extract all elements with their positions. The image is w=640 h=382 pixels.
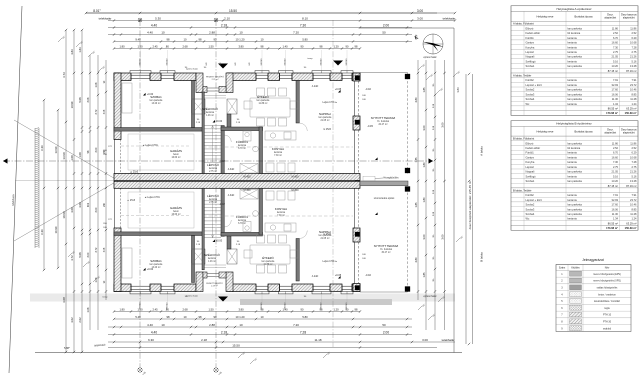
svg-text:lam.parketta: lam.parketta bbox=[568, 212, 583, 216]
svg-text:tégla: tégla bbox=[604, 307, 610, 310]
svg-text:GARÁZS: GARÁZS bbox=[170, 206, 182, 210]
svg-text:4.40: 4.40 bbox=[151, 331, 157, 335]
svg-text:15.50: 15.50 bbox=[232, 344, 240, 348]
wardrobe szoba1 B bbox=[122, 248, 132, 278]
svg-text:5.88°: 5.88° bbox=[64, 346, 70, 350]
svg-text:10: 10 bbox=[261, 38, 264, 42]
svg-text:kerámia: kerámia bbox=[274, 151, 283, 154]
svg-text:építési határ: építési határ bbox=[186, 294, 198, 297]
svg-text:7.28: 7.28 bbox=[631, 45, 637, 49]
svg-text:+0.05: +0.05 bbox=[335, 274, 342, 277]
interior wall bath bottom B bbox=[221, 232, 263, 236]
svg-text:3.08: 3.08 bbox=[104, 109, 106, 114]
survey marker bottom 2 bbox=[214, 368, 223, 376]
svg-text:6.29: 6.29 bbox=[631, 151, 637, 155]
room label F&#220;RD&#336;1 bbox=[236, 214, 248, 225]
section line x=216 bbox=[215, 20, 217, 368]
svg-text:Szoba2: Szoba2 bbox=[526, 88, 535, 92]
section arrow right bbox=[429, 158, 434, 163]
property boundary left (telekhatar) bbox=[9, 6, 22, 373]
svg-text:kerámia: kerámia bbox=[568, 102, 578, 106]
svg-text:3.00: 3.00 bbox=[417, 17, 423, 21]
svg-text:+0.00: +0.00 bbox=[147, 268, 154, 271]
interior wall bath right A bbox=[259, 127, 263, 174]
interior wall etkezo/nappali B bbox=[296, 239, 299, 282]
room label NYITOTT TERASZ bbox=[374, 244, 399, 254]
svg-text:lam.parketta: lam.parketta bbox=[568, 26, 583, 30]
garage slab outline A bbox=[128, 134, 194, 170]
svg-text:2.68: 2.68 bbox=[182, 45, 188, 49]
svg-text:6.36: 6.36 bbox=[40, 145, 44, 151]
property boundary top bbox=[86, 12, 437, 14]
svg-text:NYITOTT TERASZ: NYITOTT TERASZ bbox=[374, 244, 399, 248]
svg-text:2.52: 2.52 bbox=[613, 31, 619, 35]
svg-text:telekhatár: telekhatár bbox=[442, 338, 455, 342]
dimension line y=20.5 bbox=[99, 17, 457, 22]
svg-text:kerámia: kerámia bbox=[568, 41, 578, 45]
door arc etkezo/nappali B bbox=[299, 231, 307, 239]
party wall band 2 bbox=[114, 181, 360, 188]
dimension line y=41.5 bbox=[113, 38, 412, 43]
svg-text:2.18: 2.18 bbox=[221, 24, 227, 28]
svg-text:A 3úD: A 3úD bbox=[228, 194, 235, 197]
svg-text:1.08: 1.08 bbox=[87, 307, 90, 312]
svg-text:A lakás: A lakás bbox=[480, 146, 484, 156]
entry recess side walls A bbox=[196, 73, 203, 93]
sight line upper (to party wall end) bbox=[14, 120, 118, 181]
svg-text:Fürdő2: Fürdő2 bbox=[526, 193, 535, 197]
dimension line x=66 bbox=[62, 29, 67, 353]
svg-text:7.30: 7.30 bbox=[300, 24, 306, 28]
section arrow left bbox=[3, 158, 8, 163]
svg-text:7.91: 7.91 bbox=[613, 193, 619, 197]
svg-text:10.46: 10.46 bbox=[630, 203, 637, 207]
interior wall szoba1 right A bbox=[192, 81, 195, 128]
svg-text:17.60: 17.60 bbox=[612, 203, 619, 207]
svg-text:telekhatár: telekhatár bbox=[11, 194, 16, 206]
svg-text:2.52: 2.52 bbox=[631, 146, 637, 150]
svg-text:87.15 m²: 87.15 m² bbox=[608, 69, 618, 73]
svg-text:1.80: 1.80 bbox=[119, 45, 125, 49]
window labels top bbox=[140, 57, 349, 71]
svg-text:M.450: M.450 bbox=[244, 176, 252, 179]
room label F&#220;RD&#336;1 bbox=[236, 139, 248, 150]
svg-text:90/240: 90/240 bbox=[321, 58, 323, 65]
svg-text:6.70: 6.70 bbox=[613, 36, 619, 40]
svg-text:1.85: 1.85 bbox=[422, 87, 426, 93]
dimension line x=90 bbox=[87, 55, 91, 330]
svg-text:13.90: 13.90 bbox=[54, 146, 58, 153]
dimension line y=311.5 bbox=[113, 308, 361, 313]
svg-text:90/240: 90/240 bbox=[261, 58, 263, 65]
svg-text:Nappali: Nappali bbox=[526, 55, 535, 59]
svg-text:13.28: 13.28 bbox=[630, 64, 637, 68]
svg-text:6.70 m²: 6.70 m² bbox=[238, 222, 246, 225]
svg-text:telekhatár: telekhatár bbox=[94, 343, 106, 348]
dimension line y=48.5 bbox=[113, 45, 361, 50]
svg-text:fél kerámia: fél kerámia bbox=[568, 146, 581, 150]
svg-text:beton: beton bbox=[173, 153, 179, 156]
exterior wall right piers bbox=[353, 73, 360, 81]
svg-text:terep: terep bbox=[103, 296, 109, 299]
svg-text:.80: .80 bbox=[165, 308, 169, 312]
svg-text:10.90: 10.90 bbox=[54, 226, 58, 233]
svg-text:30.47 m²: 30.47 m² bbox=[381, 251, 390, 254]
north compass bbox=[423, 34, 444, 54]
door arc bath B bbox=[224, 220, 231, 227]
svg-text:1.50: 1.50 bbox=[208, 45, 214, 49]
svg-text:98: 98 bbox=[199, 38, 202, 42]
svg-text:fél kerámia: fél kerámia bbox=[568, 31, 581, 35]
svg-text:terep: terep bbox=[308, 57, 314, 60]
svg-text:2.75: 2.75 bbox=[613, 165, 619, 169]
svg-text:Konyha: Konyha bbox=[526, 160, 535, 164]
svg-text:3.00: 3.00 bbox=[417, 9, 423, 13]
dining table + chairs A bbox=[244, 88, 298, 126]
svg-text:3.08: 3.08 bbox=[62, 297, 66, 303]
room label GAR&#193;ZS bbox=[170, 206, 182, 216]
svg-text:7.30: 7.30 bbox=[613, 45, 619, 49]
svg-text:3.80: 3.80 bbox=[238, 45, 244, 49]
svg-text:11.86: 11.86 bbox=[612, 26, 619, 30]
svg-text:kerámia: kerámia bbox=[568, 155, 578, 159]
svg-text:15.50: 15.50 bbox=[229, 9, 237, 13]
svg-text:alapterület: alapterület bbox=[623, 132, 635, 135]
svg-text:16.60: 16.60 bbox=[612, 155, 619, 159]
svg-text:1.50: 1.50 bbox=[137, 45, 143, 49]
svg-text:lam.parketta: lam.parketta bbox=[568, 170, 583, 174]
svg-text:kerámia: kerámia bbox=[206, 111, 215, 114]
svg-text:ÉTKEZŐ: ÉTKEZŐ bbox=[257, 94, 269, 99]
dimension line x=444.5 bbox=[441, 60, 446, 330]
svg-text:90/240: 90/240 bbox=[346, 58, 348, 65]
room label &#201;TKEZ&#336; bbox=[257, 94, 270, 105]
svg-text:Előszó: Előszó bbox=[526, 141, 534, 145]
svg-text:2.88: 2.88 bbox=[209, 31, 215, 35]
svg-text:10: 10 bbox=[239, 323, 243, 327]
property boundary bottom bbox=[35, 352, 462, 354]
garage roof dashed line A bbox=[121, 145, 191, 147]
svg-text:kerámia: kerámia bbox=[209, 167, 218, 170]
svg-text:32.93: 32.93 bbox=[612, 198, 619, 202]
svg-text:4.80: 4.80 bbox=[414, 257, 418, 263]
entry recess back wall B with door bbox=[203, 272, 207, 278]
terrace outline dashed A bbox=[360, 72, 408, 74]
interior wall stair left B bbox=[202, 188, 204, 269]
X column block left B bbox=[192, 249, 206, 264]
svg-text:302: 302 bbox=[87, 202, 90, 207]
terrain band grey bbox=[30, 294, 455, 302]
svg-text:lam.parketta: lam.parketta bbox=[568, 141, 583, 145]
svg-text:3.08: 3.08 bbox=[78, 202, 82, 208]
svg-text:13.20 m²: 13.20 m² bbox=[151, 102, 160, 105]
svg-text:13.20: 13.20 bbox=[612, 64, 619, 68]
svg-text:8.10: 8.10 bbox=[302, 17, 308, 21]
svg-text:B lakás: B lakás bbox=[480, 252, 484, 262]
svg-text:-0.02: -0.02 bbox=[219, 160, 225, 163]
dimension line y=342 bbox=[108, 338, 455, 343]
svg-text:1.85: 1.85 bbox=[422, 272, 426, 278]
svg-text:PTH 30: PTH 30 bbox=[603, 321, 612, 324]
svg-text:5.80: 5.80 bbox=[302, 38, 308, 42]
svg-text:5.06: 5.06 bbox=[78, 97, 82, 103]
svg-text:lam.parketta: lam.parketta bbox=[150, 99, 163, 102]
svg-text:2.10: 2.10 bbox=[224, 17, 230, 21]
svg-text:16.60: 16.60 bbox=[612, 41, 619, 45]
svg-text:kerámia: kerámia bbox=[568, 151, 578, 155]
svg-text:Lépcső + közl.: Lépcső + közl. bbox=[526, 83, 543, 87]
svg-text:5.16: 5.16 bbox=[613, 174, 619, 178]
svg-text:6.30: 6.30 bbox=[148, 338, 154, 342]
svg-text:kerámia: kerámia bbox=[568, 174, 578, 178]
svg-text:Garázs: Garázs bbox=[526, 41, 535, 45]
svg-text:Szoba2: Szoba2 bbox=[526, 203, 535, 207]
garage door opening left A bbox=[114, 140, 116, 174]
svg-text:3.00: 3.00 bbox=[87, 252, 90, 257]
svg-text:7.20: 7.20 bbox=[293, 323, 299, 327]
svg-text:GARÁZS: GARÁZS bbox=[170, 149, 182, 153]
svg-text:11.28: 11.28 bbox=[630, 212, 637, 216]
svg-text:Konyha: Konyha bbox=[526, 45, 535, 49]
svg-text:3.08: 3.08 bbox=[70, 207, 74, 213]
svg-text:11.86 m²: 11.86 m² bbox=[259, 102, 268, 105]
svg-text:NAPPALI: NAPPALI bbox=[319, 112, 331, 116]
svg-text:2.52: 2.52 bbox=[613, 146, 619, 150]
svg-text:90: 90 bbox=[214, 38, 217, 42]
svg-text:11.86 m²: 11.86 m² bbox=[264, 263, 273, 266]
szelfogo right wall B bbox=[227, 236, 231, 250]
svg-text:2.88: 2.88 bbox=[209, 323, 215, 327]
svg-text:3.83: 3.83 bbox=[70, 49, 74, 55]
svg-text:6.36: 6.36 bbox=[40, 229, 44, 235]
svg-text:4.80: 4.80 bbox=[414, 97, 418, 103]
svg-text:alapterület: alapterület bbox=[604, 17, 616, 20]
svg-text:1.34: 1.34 bbox=[613, 102, 619, 106]
svg-text:PTH 10: PTH 10 bbox=[603, 314, 612, 317]
svg-text:Jelmagyarázat: Jelmagyarázat bbox=[582, 258, 604, 262]
svg-text:20.47 m²: 20.47 m² bbox=[378, 123, 387, 126]
svg-text:-0.02: -0.02 bbox=[365, 274, 371, 277]
svg-text:kerámia: kerámia bbox=[568, 217, 578, 221]
svg-text:1.46 m²: 1.46 m² bbox=[208, 260, 216, 263]
legend table bbox=[556, 265, 631, 332]
dimension line x=106 bbox=[104, 60, 107, 300]
upper floor edge dashed A bbox=[203, 146, 353, 148]
svg-text:kerámia: kerámia bbox=[209, 198, 218, 201]
svg-text:1.08: 1.08 bbox=[70, 155, 74, 161]
svg-text:-0.45: -0.45 bbox=[367, 125, 373, 128]
svg-text:7.28: 7.28 bbox=[300, 331, 306, 335]
svg-text:11.86: 11.86 bbox=[630, 141, 637, 145]
dimension line x=418 bbox=[414, 60, 419, 300]
svg-text:építési határ: építési határ bbox=[423, 56, 436, 59]
stair treads unit B bbox=[204, 201, 221, 238]
room label NAPPALI bbox=[319, 112, 332, 122]
svg-text:telekhatár: telekhatár bbox=[443, 17, 456, 21]
svg-text:13.20: 13.20 bbox=[612, 179, 619, 183]
svg-text:KONYHA: KONYHA bbox=[275, 207, 287, 211]
interior wall bath top A bbox=[221, 127, 263, 131]
svg-text:5.16: 5.16 bbox=[631, 174, 637, 178]
diagonal tick clusters bbox=[58, 36, 464, 364]
interior wall stair right / bath left B bbox=[221, 188, 224, 236]
svg-text:lam.parketta: lam.parketta bbox=[568, 203, 583, 207]
svg-text:LÉPCSŐ: LÉPCSŐ bbox=[207, 162, 219, 167]
svg-text:3.83: 3.83 bbox=[456, 87, 460, 93]
svg-text:1.24: 1.24 bbox=[631, 102, 637, 106]
party wall band 1 bbox=[114, 174, 360, 181]
X column block right A bbox=[227, 99, 237, 114]
entry recess back wall A with door bbox=[203, 87, 207, 93]
protruding window frames top bbox=[130, 71, 353, 73]
svg-text:Név: Név bbox=[605, 267, 610, 270]
svg-text:10.46: 10.46 bbox=[630, 88, 637, 92]
svg-text:2.29 m²: 2.29 m² bbox=[212, 78, 219, 81]
wardrobe szoba1 A bbox=[122, 83, 132, 113]
svg-text:±0.00: ±0.00 bbox=[216, 240, 223, 243]
dimension line x=435 bbox=[433, 60, 436, 330]
svg-text:f.b. burkolat: f.b. burkolat bbox=[377, 120, 389, 123]
svg-text:lam.parketta: lam.parketta bbox=[568, 179, 583, 183]
svg-text:32.93: 32.93 bbox=[612, 83, 619, 87]
dimension line x=426 bbox=[422, 60, 427, 330]
svg-text:1.20: 1.20 bbox=[333, 308, 339, 312]
room label L&#201;PCS&#336; bbox=[207, 193, 219, 204]
dimension line x=58 bbox=[54, 109, 59, 269]
svg-text:5.16: 5.16 bbox=[631, 59, 637, 63]
svg-text:±0.00: ±0.00 bbox=[216, 120, 223, 123]
svg-text:Helyiség neve: Helyiség neve bbox=[537, 15, 554, 19]
dimension line y=334.5 bbox=[108, 331, 412, 336]
svg-text:1.24: 1.24 bbox=[631, 217, 637, 221]
svg-text:kerámia: kerámia bbox=[568, 45, 578, 49]
svg-text:1.85: 1.85 bbox=[414, 202, 418, 208]
svg-text:Szoba4: Szoba4 bbox=[526, 97, 535, 101]
svg-text:lam.parketta: lam.parketta bbox=[257, 99, 270, 102]
svg-text:11.30: 11.30 bbox=[612, 97, 619, 101]
dimension line y=34.5 bbox=[108, 31, 412, 36]
svg-text:1.50: 1.50 bbox=[208, 308, 214, 312]
svg-text:Lejtés 0.5% ►: Lejtés 0.5% ► bbox=[323, 101, 338, 104]
stair treads unit A bbox=[204, 126, 221, 163]
svg-text:2.75: 2.75 bbox=[631, 165, 637, 169]
section line x=333 bbox=[332, 20, 334, 347]
survey marker bottom 1 bbox=[138, 368, 147, 376]
svg-text:7.28: 7.28 bbox=[631, 160, 637, 164]
svg-text:Szoba1: Szoba1 bbox=[526, 179, 535, 183]
svg-text:30₂: 30₂ bbox=[433, 256, 435, 259]
svg-text:+0.05: +0.05 bbox=[335, 88, 342, 91]
svg-text:Lépcső: Lépcső bbox=[526, 165, 535, 169]
built area banner lines bbox=[465, 74, 467, 344]
svg-text:50: 50 bbox=[382, 31, 386, 35]
svg-text:Hézagkiürülés: Hézagkiürülés bbox=[383, 176, 399, 179]
garage slab outline B bbox=[128, 192, 194, 228]
svg-text:6.70 m²: 6.70 m² bbox=[238, 147, 246, 150]
interior wall szoba1/garaz B bbox=[114, 232, 203, 236]
svg-text:m 25x5: m 25x5 bbox=[323, 128, 332, 131]
svg-text:Nappali: Nappali bbox=[526, 170, 535, 174]
svg-text:m 25x5: m 25x5 bbox=[323, 233, 332, 236]
level markers bbox=[147, 88, 374, 277]
svg-text:10.90: 10.90 bbox=[70, 101, 74, 108]
svg-text:10.68: 10.68 bbox=[630, 155, 637, 159]
svg-text:98: 98 bbox=[199, 315, 202, 319]
svg-text:telekhatár: telekhatár bbox=[99, 17, 112, 21]
svg-text:1.08: 1.08 bbox=[95, 82, 98, 87]
svg-text:3.72: 3.72 bbox=[95, 109, 98, 114]
svg-text:150.39 m²: 150.39 m² bbox=[625, 111, 637, 115]
svg-text:lam.parketta: lam.parketta bbox=[262, 260, 275, 263]
svg-text:lam.parketta: lam.parketta bbox=[568, 88, 583, 92]
svg-text:11.28: 11.28 bbox=[630, 97, 637, 101]
svg-text:2.75 m²: 2.75 m² bbox=[209, 201, 217, 204]
svg-text:Kitöltés: Kitöltés bbox=[571, 267, 580, 270]
svg-text:kerámia: kerámia bbox=[568, 198, 578, 202]
svg-text:30₂: 30₂ bbox=[433, 168, 435, 171]
svg-text:Szoba4: Szoba4 bbox=[526, 212, 535, 216]
svg-text:3.08: 3.08 bbox=[87, 97, 90, 102]
svg-text:21.05: 21.05 bbox=[612, 55, 619, 59]
svg-text:90/240: 90/240 bbox=[140, 58, 142, 65]
svg-text:150.39 m²: 150.39 m² bbox=[625, 226, 637, 230]
svg-text:6.29: 6.29 bbox=[631, 36, 637, 40]
svg-text:A lakás, Földszint: A lakás, Földszint bbox=[513, 22, 534, 26]
svg-text:lam.parketta: lam.parketta bbox=[568, 207, 583, 211]
interior wall bath right B bbox=[259, 188, 263, 235]
svg-text:▲ 25x5: ▲ 25x5 bbox=[127, 199, 136, 202]
X column block right B bbox=[227, 249, 237, 264]
svg-text:Szoba1: Szoba1 bbox=[526, 64, 535, 68]
svg-text:5.16: 5.16 bbox=[613, 59, 619, 63]
svg-text:Lépcső: Lépcső bbox=[526, 50, 535, 54]
svg-text:3.00: 3.00 bbox=[441, 234, 445, 240]
window labels bottom bbox=[103, 294, 349, 309]
svg-text:5.48: 5.48 bbox=[135, 315, 141, 319]
black posts on right wall bbox=[355, 76, 360, 81]
svg-text:SZOBA1: SZOBA1 bbox=[150, 259, 162, 263]
svg-text:KONYHA: KONYHA bbox=[272, 147, 284, 151]
svg-text:98: 98 bbox=[167, 38, 170, 42]
garage roof dashed line B bbox=[121, 215, 191, 217]
fence strip left (ladder hatch) bbox=[35, 128, 39, 248]
svg-text:3.00: 3.00 bbox=[441, 122, 445, 128]
svg-text:11.86: 11.86 bbox=[612, 141, 619, 145]
dimension line y=27.5 bbox=[108, 24, 412, 29]
svg-text:1.40: 1.40 bbox=[282, 45, 288, 49]
section line x=140 bbox=[139, 20, 141, 368]
svg-text:FEDETT BELÉPŐ: FEDETT BELÉPŐ bbox=[206, 282, 223, 285]
door arc etkezo/nappali A bbox=[299, 123, 307, 131]
svg-text:3.08: 3.08 bbox=[104, 247, 106, 252]
svg-text:3.72: 3.72 bbox=[70, 255, 74, 261]
svg-text:beton / vasbeton: beton / vasbeton bbox=[598, 293, 616, 296]
svg-text:30₂: 30₂ bbox=[433, 278, 435, 281]
svg-text:10: 10 bbox=[161, 323, 165, 327]
svg-text:5.80: 5.80 bbox=[302, 315, 308, 319]
svg-text:1.80: 1.80 bbox=[422, 197, 426, 203]
svg-text:1.83: 1.83 bbox=[78, 47, 82, 53]
svg-text:21.26: 21.26 bbox=[630, 55, 637, 59]
svg-text:2.45: 2.45 bbox=[152, 45, 158, 49]
svg-text:kerámia: kerámia bbox=[568, 59, 578, 63]
svg-text:Fedett előtér: Fedett előtér bbox=[526, 31, 541, 35]
svg-text:3.72: 3.72 bbox=[62, 72, 66, 78]
svg-text:21.26: 21.26 bbox=[630, 170, 637, 174]
section cut marker bottom bbox=[218, 297, 228, 302]
svg-text:A 2úD: A 2úD bbox=[312, 275, 319, 278]
svg-text:2.00: 2.00 bbox=[383, 331, 389, 335]
